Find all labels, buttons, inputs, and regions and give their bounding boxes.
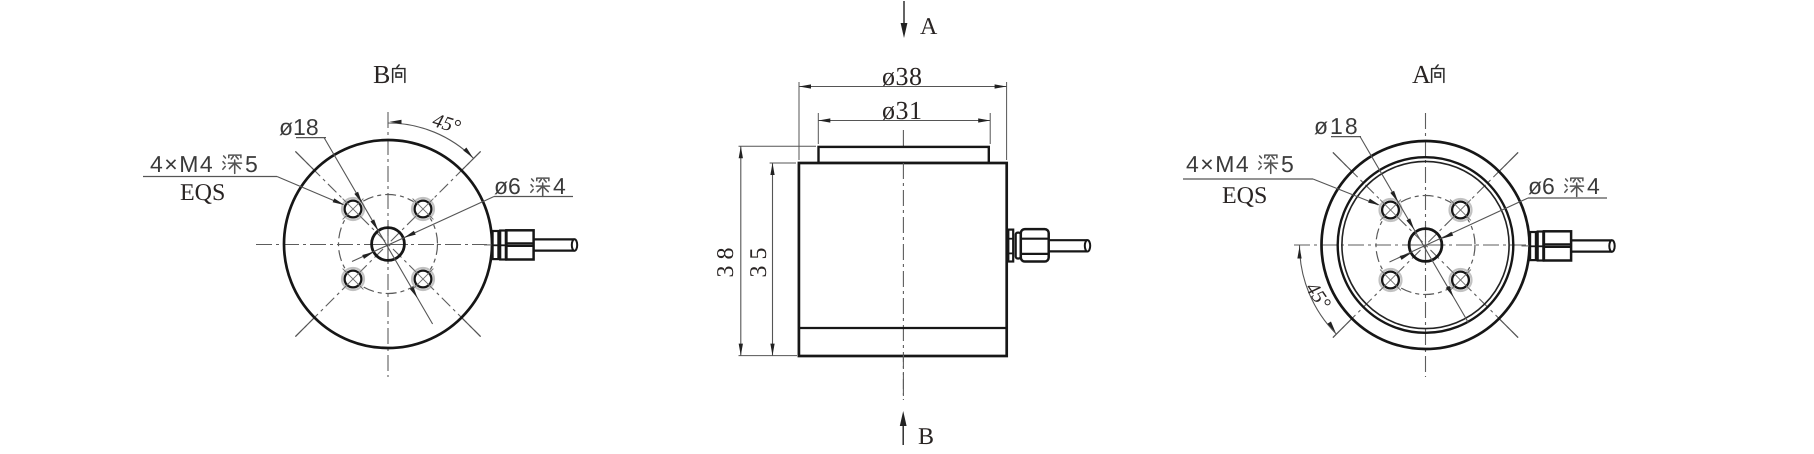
vertical centerline [387,112,389,377]
vertical centerline [1425,113,1427,377]
svg-text:B: B [918,424,934,450]
dim 38 arrow bottom [739,344,743,356]
bolt hole M4 bottom-left (view B) [342,268,364,290]
dia38 dim extension lines [798,82,800,160]
svg-text:EQS: EQS [180,180,225,206]
svg-text:ø31: ø31 [882,96,923,125]
svg-text:ø6: ø6 [1528,173,1555,199]
svg-text:ø38: ø38 [882,62,923,91]
svg-text:4×M4: 4×M4 [150,151,214,177]
view arrow A (top) [903,1,905,30]
inner ring circle outer [1338,157,1514,333]
solid diagonal ticks outside circle [295,151,314,170]
svg-text:4×M4: 4×M4 [1186,151,1250,177]
dia18 arrow at center hole (view A) [1406,218,1416,231]
diagonal centerline NE-SW [1333,152,1518,337]
vertical centerline inside body [902,163,904,400]
dia18 arrow at bolt circle lower [410,287,420,300]
bolt hole M4 top-right (view B) [412,198,434,220]
bolt hole M4 top-left (view A) [1380,199,1402,221]
solid diagonal ticks outside circle [1333,152,1352,171]
svg-text:ø18: ø18 [1314,113,1360,139]
45 deg dimension arc (bottom-left) [1299,245,1336,334]
left dims extension lines [739,145,817,147]
dia31 dim arrow left [818,118,830,122]
dia18 leader line (steep) [1360,137,1469,324]
vertical centerline [902,130,904,400]
bolt hole M4 top-right (view A) [1450,199,1472,221]
dim 35 arrow bottom [770,344,774,356]
svg-text:5: 5 [245,151,258,177]
dia18 arrow at bolt circle upper (view A) [1390,191,1400,204]
svg-text:ø18: ø18 [279,114,319,140]
svg-text:B: B [373,60,390,89]
view arrow B (bottom) [902,419,904,445]
bolt hole M4 top-left (view B) [342,198,364,220]
dim 35 arrow top [770,163,774,175]
bolt hole M4 bottom-left (view A) [1380,269,1402,291]
svg-text:A: A [1412,60,1431,89]
4xM4 leader [277,177,343,205]
dia38 dim arrow left [799,84,811,88]
45deg arc arrow at vertical centerline [390,120,402,124]
center crosshair solid overlay [368,244,408,246]
bolt circle (dashed) [339,195,438,294]
4xM4 leader [1313,179,1379,205]
svg-text:5: 5 [1281,151,1294,177]
diagonal centerline NE-SW [295,151,480,336]
38 dimension line (left) [740,146,742,355]
svg-text:4: 4 [553,173,566,199]
view direction arrowhead A [901,23,908,38]
bolt hole M4 bottom-right (view A) [1450,269,1472,291]
dia6 arrow lower-left (view A) [1400,251,1413,260]
horizontal centerline [1294,244,1526,246]
bottom band line [799,327,1007,329]
connector on right of view B [484,230,577,259]
view direction arrowhead B [900,411,907,426]
svg-text:38: 38 [713,242,739,278]
connector on right of middle view [1008,229,1090,261]
top cap rectangle [819,147,989,163]
outer circle [284,140,492,348]
4xM4 leader arrow at hole (view A) [1368,199,1381,208]
dia6 arrow lower-left [362,250,375,259]
center hole circle [372,228,405,261]
4xM4 leader arrow at hole [333,198,346,207]
inner ring circle inner [1342,161,1509,328]
diagonal centerline NW-SE [1333,152,1518,337]
45deg arc arrow at diagonal (view A) [1327,321,1337,333]
dia6 leader through center [1390,198,1529,262]
dia6 arrow upper-right (view A) [1441,232,1454,241]
center hole circle [1409,229,1442,262]
45deg arc arrow at diagonal [463,148,474,160]
horizontal centerline [256,244,487,246]
svg-text:ø6: ø6 [494,173,521,199]
dia31 dimension line [818,120,990,122]
svg-text:4: 4 [1587,173,1600,199]
main body rectangle [799,163,1007,356]
dia31 dim arrow right [978,118,990,122]
dia18 arrow at bolt circle lower (view A) [1446,286,1456,299]
dim 38 arrow top [739,146,743,158]
diagonal centerline NW-SE [295,151,480,336]
45deg arc arrow at horizontal centerline (view A) [1297,247,1301,259]
dia6 leader through center [352,197,494,262]
outer circle [1322,141,1530,349]
dia18 arrow at center hole [370,219,380,232]
45 deg dimension arc [388,123,474,158]
35 dimension line (left) [772,163,774,356]
svg-text:A: A [920,14,938,40]
dia38 dim arrow right [995,84,1007,88]
bolt circle (dashed) [1376,196,1475,295]
center crosshair solid overlay (view A) [1406,244,1446,246]
dia18 arrow at bolt circle upper [354,192,364,205]
dia31 dim extension lines [817,113,819,144]
svg-text:EQS: EQS [1222,183,1267,209]
dia18 leader line (steep) [324,138,433,325]
dia6 arrow upper-right [403,231,416,240]
bolt hole M4 bottom-right (view B) [412,268,434,290]
svg-text:35: 35 [746,242,772,278]
connector on right of view A [1522,231,1615,260]
dia38 dimension line [799,86,1007,88]
